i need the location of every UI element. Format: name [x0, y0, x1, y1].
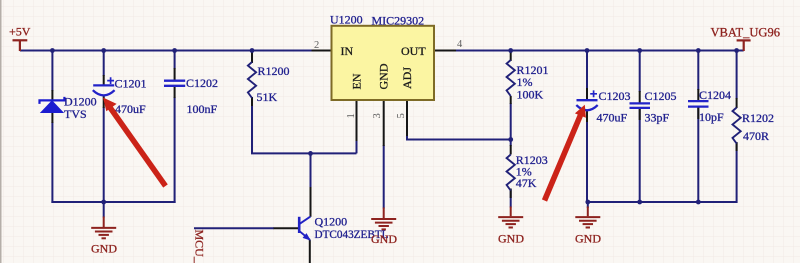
svg-text:C1204: C1204	[699, 88, 731, 102]
svg-text:MIC29302: MIC29302	[372, 14, 425, 28]
svg-text:EN: EN	[350, 73, 364, 89]
svg-text:GND: GND	[498, 232, 524, 246]
svg-text:47K: 47K	[516, 176, 537, 190]
svg-text:10pF: 10pF	[699, 110, 724, 124]
svg-text:100nF: 100nF	[187, 102, 218, 116]
svg-text:470R: 470R	[743, 129, 769, 143]
svg-text:C1202: C1202	[186, 76, 218, 90]
svg-text:470uF: 470uF	[597, 111, 628, 125]
svg-text:100K: 100K	[517, 88, 544, 102]
svg-text:GND: GND	[575, 232, 601, 246]
svg-text:C1205: C1205	[645, 89, 677, 103]
svg-text:ADJ: ADJ	[400, 67, 414, 89]
svg-text:4: 4	[457, 39, 463, 50]
svg-text:R1200: R1200	[258, 64, 290, 78]
svg-text:33pF: 33pF	[645, 111, 670, 125]
svg-text:GND: GND	[91, 242, 117, 256]
svg-text:IN: IN	[341, 44, 354, 58]
svg-text:MCU_P: MCU_P	[193, 230, 207, 263]
svg-text:C1201: C1201	[115, 77, 147, 91]
svg-text:5: 5	[396, 113, 407, 118]
svg-text:VBAT_UG96: VBAT_UG96	[711, 26, 780, 40]
svg-text:3: 3	[372, 113, 383, 118]
svg-text:TVS: TVS	[64, 107, 87, 121]
svg-text:Q1200: Q1200	[315, 215, 348, 229]
svg-text:+5V: +5V	[9, 25, 31, 39]
svg-text:51K: 51K	[257, 90, 278, 104]
svg-text:1: 1	[346, 113, 357, 118]
svg-text:470uF: 470uF	[115, 102, 146, 116]
svg-text:2: 2	[314, 40, 319, 51]
svg-text:GND: GND	[371, 232, 397, 246]
svg-text:C1203: C1203	[599, 89, 631, 103]
svg-text:R1202: R1202	[742, 111, 774, 125]
svg-text:U1200: U1200	[330, 13, 363, 27]
svg-text:GND: GND	[377, 63, 391, 89]
svg-text:OUT: OUT	[401, 44, 426, 58]
